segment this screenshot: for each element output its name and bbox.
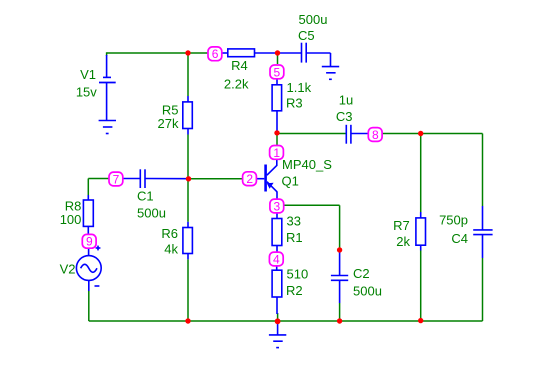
- svg-text:C2: C2: [353, 266, 370, 281]
- svg-text:4k: 4k: [164, 242, 178, 257]
- svg-text:2: 2: [246, 172, 253, 186]
- svg-text:100: 100: [60, 212, 82, 227]
- svg-text:9: 9: [86, 235, 93, 249]
- svg-text:R7: R7: [393, 218, 410, 233]
- svg-text:27k: 27k: [158, 116, 179, 131]
- svg-text:1u: 1u: [339, 93, 353, 108]
- svg-text:510: 510: [287, 267, 309, 282]
- svg-text:2k: 2k: [396, 234, 410, 249]
- svg-text:R3: R3: [286, 96, 303, 111]
- svg-text:8: 8: [372, 128, 379, 142]
- svg-text:V2: V2: [60, 262, 76, 277]
- svg-text:1.1k: 1.1k: [287, 80, 312, 95]
- svg-text:500u: 500u: [137, 206, 166, 221]
- svg-text:500u: 500u: [299, 12, 328, 27]
- svg-text:750p: 750p: [439, 213, 468, 228]
- svg-text:R6: R6: [161, 226, 178, 241]
- svg-text:6: 6: [212, 47, 219, 61]
- svg-text:5: 5: [274, 65, 281, 79]
- svg-text:V1: V1: [80, 67, 96, 82]
- svg-text:C1: C1: [137, 189, 154, 204]
- svg-text:7: 7: [113, 172, 120, 186]
- svg-text:C5: C5: [298, 28, 315, 43]
- svg-text:500u: 500u: [353, 284, 382, 299]
- svg-text:1: 1: [273, 146, 280, 160]
- svg-text:Q1: Q1: [282, 174, 299, 189]
- svg-text:R1: R1: [286, 230, 303, 245]
- svg-text:3: 3: [274, 199, 281, 213]
- svg-text:C3: C3: [336, 109, 353, 124]
- svg-text:4: 4: [273, 252, 280, 266]
- svg-text:R4: R4: [231, 58, 248, 73]
- svg-text:C4: C4: [451, 231, 468, 246]
- svg-text:33: 33: [287, 214, 301, 229]
- svg-text:R2: R2: [286, 283, 303, 298]
- svg-text:2.2k: 2.2k: [224, 77, 249, 92]
- svg-text:MP40_S: MP40_S: [282, 157, 332, 172]
- svg-text:15v: 15v: [76, 85, 97, 100]
